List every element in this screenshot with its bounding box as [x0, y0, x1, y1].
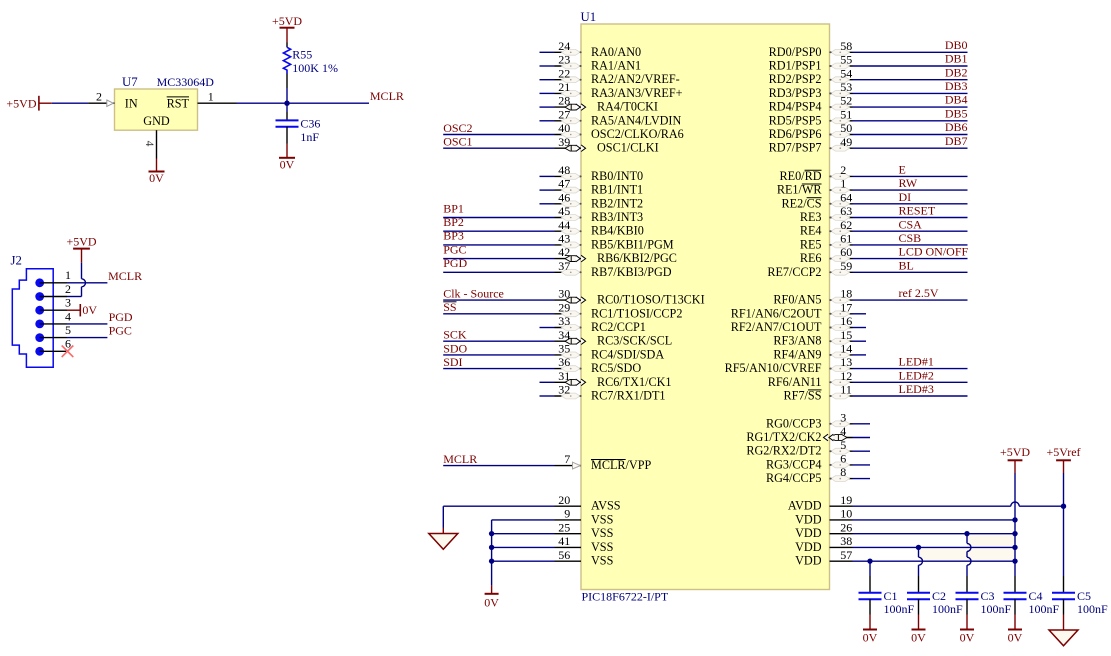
power port +5VD (J2) [66, 235, 96, 263]
svg-text:BL: BL [899, 258, 914, 272]
svg-text:PGD: PGD [443, 256, 467, 270]
svg-text:0V: 0V [484, 596, 499, 610]
svg-text:RF4/AN9: RF4/AN9 [773, 347, 821, 361]
svg-text:CSA: CSA [899, 217, 923, 231]
svg-text:RA0/AN0: RA0/AN0 [591, 45, 641, 59]
capacitor C36 1nF [276, 112, 299, 144]
net label PGC [443, 242, 466, 256]
svg-text:RG1/TX2/CK2: RG1/TX2/CK2 [746, 430, 821, 444]
svg-text:OSC1/CLKI: OSC1/CLKI [597, 141, 659, 155]
pin 51 (RD5/PSP5) [769, 107, 968, 127]
svg-text:RC7/RX1/DT1: RC7/RX1/DT1 [591, 389, 666, 403]
pin 45 (RB3/INT3) [443, 204, 643, 224]
net label ref 2.5V [899, 286, 939, 300]
wire +5Vref column down to C5 [1063, 473, 1065, 592]
junction (1015,534) [1012, 531, 1017, 536]
svg-text:63: 63 [840, 204, 852, 218]
pin 48 (RB0/INT0) [540, 163, 644, 183]
svg-text:29: 29 [558, 300, 570, 314]
svg-text:OSC2: OSC2 [443, 121, 472, 135]
svg-text:RE3: RE3 [800, 210, 822, 224]
svg-text:CSB: CSB [899, 231, 922, 245]
pin 55 (RD1/PSP1) [769, 53, 968, 73]
net label PGD (J2) [109, 310, 133, 324]
svg-text:Clk - Source: Clk - Source [443, 287, 504, 301]
svg-text:+5VD: +5VD [1000, 445, 1030, 459]
svg-text:100nF: 100nF [1029, 602, 1060, 616]
svg-text:64: 64 [840, 190, 852, 204]
svg-text:RD1/PSP1: RD1/PSP1 [769, 59, 822, 73]
pin 17 (RF1/AN6/C2OUT) [731, 300, 866, 320]
pin 29 (RC1/T1OSI/CCP2) [443, 300, 682, 320]
junction (1015,520) [1012, 517, 1017, 522]
net label MCLR [443, 452, 477, 466]
svg-text:OSC1: OSC1 [443, 135, 472, 149]
pin 58 (RD0/PSP0) [769, 39, 968, 59]
svg-text:SS: SS [443, 300, 456, 314]
wire shading band VDD [967, 535, 1015, 547]
pin 53 (RD3/PSP3) [769, 80, 968, 100]
svg-text:RA4/T0CKI: RA4/T0CKI [597, 100, 658, 114]
svg-text:VSS: VSS [591, 526, 614, 540]
wire C3 column with hops over VDD38 and VDD57 wires [967, 534, 971, 593]
junction VSS bus y=561.15 [489, 558, 494, 563]
svg-text:RC2/CCP1: RC2/CCP1 [591, 320, 646, 334]
pin 37 (RB7/KBI3/PGD) [443, 259, 672, 279]
no-connect X (J2 pin 6) [62, 346, 74, 358]
power port 0V (VSS bus) [484, 585, 499, 609]
svg-text:47: 47 [558, 177, 570, 191]
svg-text:SDO: SDO [443, 341, 467, 355]
svg-text:RF2/AN7/C1OUT: RF2/AN7/C1OUT [731, 320, 822, 334]
svg-text:C1: C1 [884, 589, 898, 603]
pin 25 (VSS) [492, 520, 614, 540]
net label MCLR (J2) [108, 269, 142, 283]
svg-text:DI: DI [899, 190, 912, 204]
svg-text:OSC2/CLKO/RA6: OSC2/CLKO/RA6 [591, 127, 684, 141]
net label PGC (J2) [109, 324, 132, 338]
svg-text:RF1/AN6/C2OUT: RF1/AN6/C2OUT [731, 306, 822, 320]
svg-text:ref 2.5V: ref 2.5V [899, 286, 939, 300]
svg-text:45: 45 [558, 204, 570, 218]
svg-text:IN: IN [125, 97, 138, 111]
svg-text:59: 59 [840, 259, 852, 273]
svg-text:46: 46 [558, 190, 570, 204]
svg-text:52: 52 [840, 94, 852, 108]
svg-text:RB3/INT3: RB3/INT3 [591, 210, 643, 224]
svg-text:DB3: DB3 [945, 79, 968, 93]
svg-text:32: 32 [558, 383, 570, 397]
svg-text:9: 9 [564, 507, 570, 521]
pin 63 (RE3) [800, 204, 968, 224]
pin 4 (GND) of U7 [143, 130, 157, 158]
power port +5VD (left of U7) [6, 96, 51, 111]
net label BP3 [443, 229, 464, 243]
svg-text:RD2/PSP2: RD2/PSP2 [769, 72, 822, 86]
svg-text:14: 14 [840, 342, 852, 356]
pin 31 (RC6/TX1/CK1) [540, 369, 672, 389]
svg-text:RB5/KBI1/PGM: RB5/KBI1/PGM [591, 237, 674, 251]
svg-text:42: 42 [558, 245, 570, 259]
svg-text:61: 61 [840, 232, 852, 246]
junction (870,561) [867, 558, 872, 563]
svg-text:LCD ON/OFF: LCD ON/OFF [899, 245, 969, 259]
svg-text:RC1/T1OSI/CCP2: RC1/T1OSI/CCP2 [591, 306, 682, 320]
net label DB6 [945, 120, 968, 134]
svg-text:39: 39 [558, 135, 570, 149]
svg-text:RA5/AN4/LVDIN: RA5/AN4/LVDIN [591, 113, 681, 127]
svg-text:55: 55 [840, 53, 852, 67]
svg-text:21: 21 [558, 80, 570, 94]
pin 49 (RD7/PSP7) [769, 135, 968, 155]
svg-text:MC33064D: MC33064D [157, 75, 215, 89]
svg-text:AVSS: AVSS [591, 499, 621, 513]
svg-text:C2: C2 [932, 589, 946, 603]
net label LED#1 [899, 355, 934, 369]
svg-text:RD3/PSP3: RD3/PSP3 [769, 86, 822, 100]
pin 18 (RF0/AN5) [773, 287, 967, 307]
svg-text:RF0/AN5: RF0/AN5 [773, 293, 821, 307]
svg-text:RE5: RE5 [800, 237, 822, 251]
svg-text:28: 28 [558, 94, 570, 108]
svg-text:RF3/AN8: RF3/AN8 [773, 334, 821, 348]
pin 2 (RE0/RD) [780, 163, 968, 183]
junction VSS bus y=533.65 [489, 531, 494, 536]
svg-text:R55: R55 [292, 48, 312, 62]
pin 1 (RST) of U7 [167, 90, 237, 111]
net label BP1 [443, 201, 464, 215]
svg-text:DB4: DB4 [945, 93, 968, 107]
svg-text:RC5/SDO: RC5/SDO [591, 361, 641, 375]
svg-text:31: 31 [558, 369, 570, 383]
svg-text:DB0: DB0 [945, 38, 968, 52]
svg-text:10: 10 [840, 507, 852, 521]
svg-text:DB7: DB7 [945, 134, 968, 148]
pin 61 (RE5) [800, 232, 968, 252]
svg-text:62: 62 [840, 218, 852, 232]
pin 50 (RD6/PSP6) [769, 121, 968, 141]
net label LCD ON/OFF [899, 245, 969, 259]
pin 35 (RC4/SDI/SDA) [443, 342, 664, 362]
pin 47 (RB1/INT1) [540, 177, 644, 197]
pin 64 (RE2/CS) [782, 190, 968, 210]
svg-text:36: 36 [558, 355, 570, 369]
resistor R55 [283, 43, 290, 89]
pin 6 of J2 [35, 337, 71, 356]
wire +5VD column down to C4 [1014, 473, 1016, 592]
pin 21 (RA3/AN3/VREF+) [540, 80, 683, 100]
pin 27 (RA5/AN4/LVDIN) [540, 107, 682, 127]
svg-text:41: 41 [558, 534, 570, 548]
svg-text:38: 38 [840, 534, 852, 548]
net label DI [899, 190, 912, 204]
svg-text:49: 49 [840, 135, 852, 149]
svg-text:57: 57 [840, 548, 852, 562]
pin 46 (RB2/INT2) [540, 190, 644, 210]
svg-text:37: 37 [558, 259, 570, 273]
pin 39 (OSC1/CLKI) [443, 135, 658, 155]
power port 0V (below C1) [863, 615, 878, 645]
power port 0V (below C4) [1008, 615, 1023, 645]
pin 2 (IN) of U7 [88, 90, 138, 111]
pin 34 (RC3/SCK/SCL) [443, 328, 672, 348]
power port 0V (below C2) [911, 615, 926, 645]
pin 24 (RA0/AN0) [540, 39, 642, 59]
IC U1 PIC18F6722-I/PT body [581, 24, 830, 590]
svg-text:RE1/WR: RE1/WR [777, 183, 823, 197]
net label BP2 [443, 215, 464, 229]
capacitor C1 100nF [859, 589, 915, 616]
pin 36 (RC5/SDO) [443, 355, 641, 375]
capacitor C5 100nF [1052, 589, 1108, 616]
ground (below C5, analog ground triangle) [1049, 615, 1078, 646]
pin 10 (VDD) [795, 507, 1015, 527]
net label DB2 [945, 65, 968, 79]
junction (1063.5,506) [1061, 504, 1066, 509]
svg-text:60: 60 [840, 245, 852, 259]
svg-text:5: 5 [840, 438, 846, 452]
svg-text:2: 2 [65, 282, 71, 296]
svg-text:U1: U1 [581, 10, 597, 24]
svg-text:C3: C3 [981, 589, 995, 603]
svg-text:MCLR: MCLR [108, 269, 142, 283]
pin 11 (RF7/SS) [784, 383, 968, 403]
svg-text:26: 26 [840, 520, 852, 534]
svg-text:MCLR/VPP: MCLR/VPP [591, 458, 652, 472]
svg-text:58: 58 [840, 39, 852, 53]
svg-text:2: 2 [96, 90, 102, 104]
svg-text:40: 40 [558, 121, 570, 135]
svg-text:5: 5 [65, 323, 71, 337]
svg-text:17: 17 [840, 300, 852, 314]
svg-text:VSS: VSS [591, 540, 614, 554]
net label DB3 [945, 79, 968, 93]
pin 56 (VSS) [492, 548, 614, 568]
pin 2 of J2 [35, 282, 81, 301]
svg-text:E: E [899, 163, 906, 177]
svg-text:12: 12 [840, 369, 852, 383]
pin 59 (RE7/CCP2) [767, 259, 967, 279]
svg-text:RD6/PSP6: RD6/PSP6 [769, 127, 822, 141]
junction (1015,561) [1012, 558, 1017, 563]
net label MCLR (U7 output) [370, 89, 404, 103]
svg-text:RB6/KBI2/PGC: RB6/KBI2/PGC [597, 251, 677, 265]
pin 28 (RA4/T0CKI) [540, 94, 658, 114]
svg-text:50: 50 [840, 121, 852, 135]
pin 52 (RD4/PSP4) [769, 94, 968, 114]
net label LED#3 [899, 382, 934, 396]
net label RESET [899, 204, 936, 218]
svg-text:48: 48 [558, 163, 570, 177]
svg-text:RG2/RX2/DT2: RG2/RX2/DT2 [746, 444, 821, 458]
pin 26 (VDD) [795, 520, 1015, 540]
svg-text:4: 4 [840, 424, 846, 438]
svg-text:RG4/CCP5: RG4/CCP5 [766, 471, 822, 485]
svg-text:RA2/AN2/VREF-: RA2/AN2/VREF- [591, 72, 680, 86]
svg-text:J2: J2 [11, 254, 22, 268]
svg-text:56: 56 [558, 548, 570, 562]
svg-text:53: 53 [840, 80, 852, 94]
svg-text:C5: C5 [1077, 589, 1091, 603]
svg-text:BP2: BP2 [443, 215, 464, 229]
svg-text:19: 19 [840, 493, 852, 507]
net label OSC2 [443, 121, 472, 135]
wire shading band VDD 2 [919, 548, 1016, 560]
svg-text:MCLR: MCLR [370, 89, 404, 103]
svg-text:MCLR: MCLR [443, 452, 477, 466]
capacitor C3 100nF [956, 589, 1012, 616]
pin 5 of J2 [35, 323, 71, 342]
junction (918.5,547) [916, 545, 921, 550]
svg-text:7: 7 [564, 452, 570, 466]
svg-text:LED#1: LED#1 [899, 355, 934, 369]
pin 14 (RF4/AN9) [773, 342, 866, 362]
svg-text:8: 8 [840, 465, 846, 479]
svg-text:+5VD: +5VD [66, 235, 96, 249]
svg-text:PGC: PGC [443, 242, 466, 256]
svg-text:RB0/INT0: RB0/INT0 [591, 169, 643, 183]
svg-text:27: 27 [558, 107, 570, 121]
net label CSB [899, 231, 922, 245]
ground (AVSS analog ground triangle) [429, 534, 458, 550]
svg-text:RA1/AN1: RA1/AN1 [591, 59, 641, 73]
svg-text:C4: C4 [1029, 589, 1043, 603]
svg-text:+5VD: +5VD [6, 96, 36, 110]
svg-text:RESET: RESET [899, 204, 936, 218]
svg-text:35: 35 [558, 342, 570, 356]
net label E [899, 163, 906, 177]
svg-text:RG3/CCP4: RG3/CCP4 [766, 457, 822, 471]
junction (967,534) [964, 531, 969, 536]
wire U7 RST output to MCLR node [237, 102, 370, 104]
svg-text:11: 11 [840, 383, 852, 397]
svg-text:VSS: VSS [591, 512, 614, 526]
svg-text:DB6: DB6 [945, 120, 968, 134]
power port +5VD (above R55) [272, 14, 302, 43]
svg-text:VDD: VDD [795, 512, 822, 526]
pin 41 (VSS) [492, 534, 614, 554]
pin 20 (AVSS) [443, 493, 621, 513]
pin 42 (RB6/KBI2/PGC) [443, 245, 677, 265]
net label DB4 [945, 93, 968, 107]
pin 23 (RA1/AN1) [540, 53, 642, 73]
pin 30 (RC0/T1OSO/T13CKI) [443, 287, 704, 307]
svg-text:+5VD: +5VD [272, 14, 302, 28]
svg-text:15: 15 [840, 328, 852, 342]
svg-text:RE0/RD: RE0/RD [780, 169, 822, 183]
svg-text:30: 30 [558, 287, 570, 301]
svg-text:44: 44 [558, 218, 570, 232]
svg-text:1nF: 1nF [300, 130, 319, 144]
wire MCLR from J2 pin 1 [67, 282, 107, 284]
pin 16 (RF2/AN7/C1OUT) [731, 314, 866, 334]
net label DB0 [945, 38, 968, 52]
svg-text:VDD: VDD [795, 540, 822, 554]
svg-text:0V: 0V [280, 157, 295, 171]
svg-text:22: 22 [558, 66, 570, 80]
svg-text:54: 54 [840, 66, 852, 80]
svg-text:RE7/CCP2: RE7/CCP2 [767, 265, 821, 279]
svg-text:RF5/AN10/CVREF: RF5/AN10/CVREF [725, 361, 822, 375]
svg-text:RC4/SDI/SDA: RC4/SDI/SDA [591, 347, 664, 361]
pin 44 (RB4/KBI0) [443, 218, 644, 238]
svg-text:RD4/PSP4: RD4/PSP4 [769, 100, 822, 114]
svg-text:24: 24 [558, 39, 570, 53]
svg-text:2: 2 [840, 163, 846, 177]
net label DB5 [945, 106, 968, 120]
wire VSS vertical bus [491, 520, 493, 586]
svg-text:20: 20 [558, 493, 570, 507]
svg-text:1: 1 [208, 90, 214, 104]
svg-text:100nF: 100nF [981, 602, 1012, 616]
svg-text:100K 1%: 100K 1% [292, 61, 338, 75]
pin 7 (MCLR/VPP) [443, 452, 651, 472]
svg-text:BP1: BP1 [443, 201, 464, 215]
net label SDI [443, 355, 462, 369]
wire AVSS down to ground [442, 506, 444, 533]
svg-text:0V: 0V [82, 303, 97, 317]
svg-text:RE6: RE6 [800, 251, 822, 265]
svg-text:100nF: 100nF [884, 602, 915, 616]
svg-text:51: 51 [840, 107, 852, 121]
svg-text:AVDD: AVDD [788, 499, 822, 513]
wire PGC from J2 pin 5 [67, 337, 107, 339]
net label BL [899, 258, 914, 272]
pin 3 (RG0/CCP3) [766, 410, 870, 430]
net label Clk - Source [443, 287, 504, 301]
svg-text:34: 34 [558, 328, 570, 342]
svg-text:RB7/KBI3/PGD: RB7/KBI3/PGD [591, 265, 672, 279]
svg-text:RB2/INT2: RB2/INT2 [591, 196, 643, 210]
capacitor C4 100nF [1004, 589, 1060, 616]
svg-text:RG0/CCP3: RG0/CCP3 [766, 416, 822, 430]
svg-text:0V: 0V [863, 631, 878, 645]
svg-text:DB5: DB5 [945, 106, 968, 120]
pin 4 of J2 [35, 309, 71, 328]
net label SCK [443, 328, 467, 342]
pin 60 (RE6) [800, 245, 968, 265]
net label RW [899, 176, 918, 190]
pin 4 (RG1/TX2/CK2) [746, 424, 870, 444]
svg-text:RD7/PSP7: RD7/PSP7 [769, 141, 822, 155]
pin 12 (RF6/AN11) [768, 369, 968, 389]
svg-text:DB2: DB2 [945, 65, 968, 79]
svg-text:RE4: RE4 [800, 224, 822, 238]
svg-text:RD5/PSP5: RD5/PSP5 [769, 113, 822, 127]
power port +5VD (above C4) [1000, 445, 1030, 473]
svg-text:100nF: 100nF [932, 602, 963, 616]
svg-text:C36: C36 [300, 117, 320, 131]
svg-text:U7: U7 [122, 75, 138, 89]
wire C2 column with hop over VDD57 wire [919, 547, 923, 592]
svg-text:RST: RST [167, 97, 190, 111]
pin 5 (RG2/RX2/DT2) [746, 438, 870, 458]
wire R55 to MCLR node [286, 88, 288, 103]
power port 0V (below C36) [279, 144, 295, 172]
svg-text:1: 1 [840, 177, 846, 191]
svg-text:PGC: PGC [109, 324, 132, 338]
pin 19 (AVDD) [788, 493, 1064, 513]
pin 38 (VDD) [795, 534, 1015, 554]
net label SDO [443, 341, 467, 355]
svg-text:13: 13 [840, 355, 852, 369]
svg-text:RE2/CS: RE2/CS [782, 196, 822, 210]
svg-text:RC3/SCK/SCL: RC3/SCK/SCL [597, 334, 672, 348]
pin 8 (RG4/CCP5) [766, 465, 870, 485]
pin 1 of J2 [35, 268, 71, 287]
svg-text:0V: 0V [149, 171, 164, 185]
svg-text:33: 33 [558, 314, 570, 328]
